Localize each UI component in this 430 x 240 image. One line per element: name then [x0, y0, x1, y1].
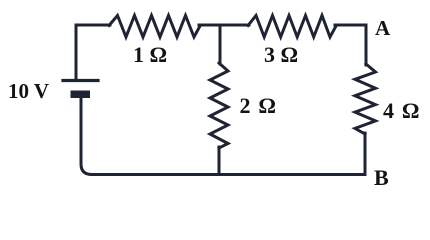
svg-text:4 Ω: 4 Ω	[383, 98, 421, 123]
battery V1 bottom thick plate	[71, 91, 91, 99]
svg-text:2 Ω: 2 Ω	[240, 93, 278, 118]
wire right branch lower lead	[364, 133, 367, 175]
resistor R1 1 ohm zigzag	[109, 16, 200, 38]
wire top-right segment	[335, 24, 366, 27]
svg-text:A: A	[375, 16, 391, 40]
svg-text:10 V: 10 V	[8, 79, 49, 103]
resistor R2 3 ohm zigzag	[248, 16, 336, 38]
svg-text:B: B	[374, 165, 389, 190]
resistor R4 4 ohm zigzag	[355, 64, 376, 134]
svg-text:3 Ω: 3 Ω	[264, 42, 298, 67]
wire top-middle segment	[199, 24, 249, 27]
node junction middle top	[219, 25, 222, 64]
wire bottom	[81, 98, 365, 175]
wire top-left segment	[76, 25, 110, 79]
resistor R3 2 ohm zigzag	[210, 63, 228, 148]
wire 2 ohm lower lead	[218, 147, 221, 175]
svg-text:1 Ω: 1 Ω	[133, 42, 167, 67]
wire right branch upper lead	[365, 25, 368, 65]
battery V1 top plate	[63, 79, 98, 82]
